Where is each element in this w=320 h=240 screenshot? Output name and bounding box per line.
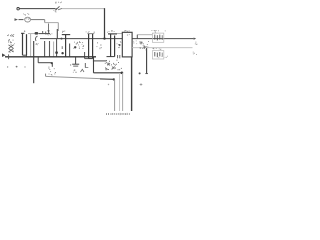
node marks right end bbox=[193, 42, 198, 55]
tube V1 box bbox=[122, 30, 132, 57]
IF transformer T2 bbox=[62, 31, 70, 57]
wire bbox=[104, 8, 106, 39]
junction dot bbox=[139, 72, 141, 74]
wire bbox=[31, 20, 58, 39]
text block left of box bbox=[117, 41, 122, 48]
wire bbox=[17, 8, 55, 10]
text block with plus marks bbox=[140, 41, 149, 50]
transformer T1 winding bbox=[21, 31, 27, 58]
wire long AVC line bbox=[46, 74, 115, 81]
wire bbox=[93, 58, 123, 75]
wire + junction bbox=[55, 39, 64, 57]
main B+ bus bbox=[40, 37, 196, 39]
node mark bbox=[140, 83, 143, 86]
wire arrow down bbox=[46, 24, 53, 36]
wire bbox=[137, 35, 152, 39]
wire AVC drop bbox=[33, 41, 35, 83]
wire bbox=[39, 31, 51, 34]
B- return line bbox=[132, 47, 193, 49]
IF transformer T3 windings bbox=[85, 31, 95, 59]
caption text bottom bbox=[106, 113, 130, 115]
pin marks bbox=[118, 55, 120, 58]
text block mid bbox=[73, 41, 84, 49]
speaker transformer T5 bbox=[152, 30, 166, 42]
plug P1 bbox=[23, 13, 31, 22]
text marks right of line end bbox=[158, 56, 168, 58]
wire battery leads bbox=[115, 57, 132, 111]
wire bbox=[62, 8, 105, 10]
text block under (tube label) bbox=[105, 60, 122, 71]
wire bbox=[30, 34, 32, 58]
oscillator coil windings bbox=[45, 41, 54, 57]
chassis ground bus bbox=[2, 50, 96, 68]
wire step to resistor bbox=[38, 57, 56, 75]
antenna coil L1 zigzag bbox=[9, 45, 14, 52]
text block right of box bbox=[133, 41, 137, 45]
IF transformer T4 bbox=[107, 30, 118, 57]
transistor Q1 converter bbox=[35, 32, 39, 45]
text block values bbox=[7, 34, 15, 45]
capacitor C-bypass bbox=[70, 58, 88, 73]
filter choke T6 bbox=[152, 48, 163, 59]
text block bbox=[97, 42, 102, 49]
wire cap drop bbox=[145, 48, 148, 74]
node arrow input bbox=[15, 18, 24, 21]
wire bbox=[117, 33, 123, 35]
switch S1 bbox=[54, 2, 63, 13]
wire bbox=[28, 33, 35, 35]
